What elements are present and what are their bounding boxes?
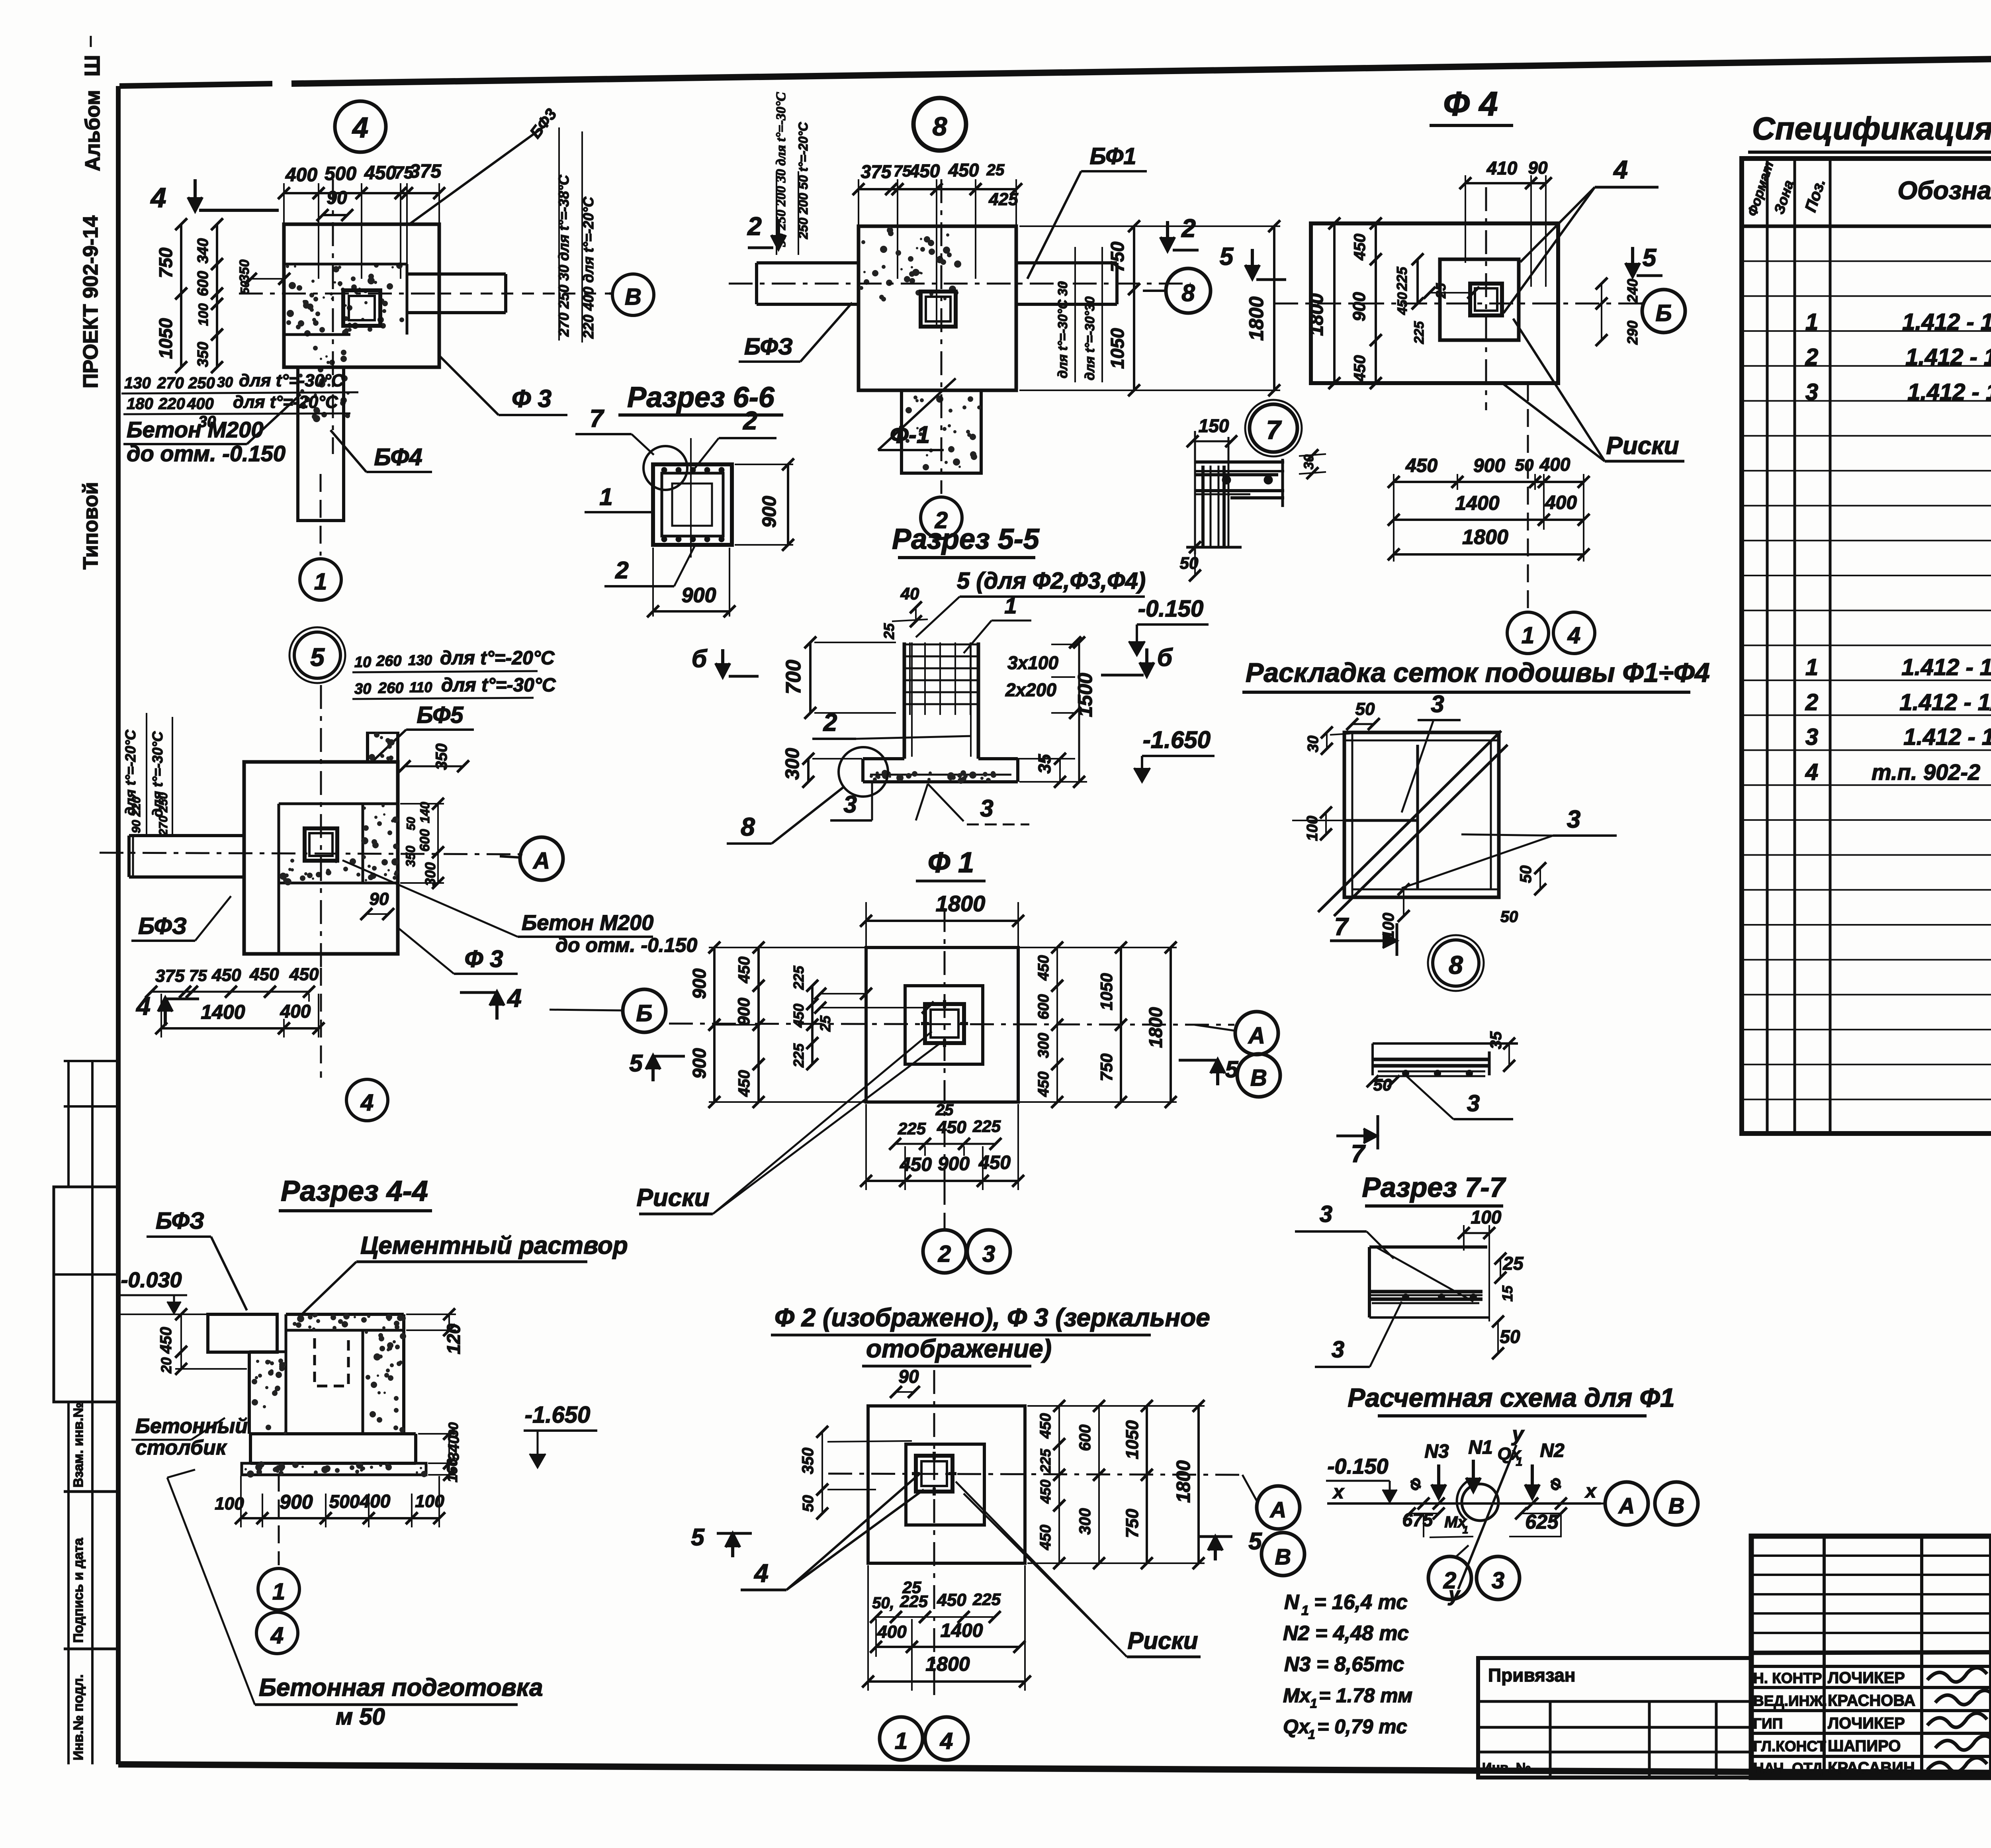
svg-text:30: 30 [217,374,233,390]
razrez 5-5 section b markers [692,644,1173,677]
svg-text:350: 350 [799,1448,817,1474]
svg-text:750: 750 [1107,241,1128,272]
svg-text:х: х [1332,1482,1345,1503]
sidebar album label [80,36,104,171]
svg-text:450: 450 [948,160,979,180]
svg-text:Подпись и дата: Подпись и дата [71,1537,86,1643]
razrez 4-4 section drawing [208,1313,550,1478]
F2 centerlines [828,1370,1242,1697]
svg-text:ЛОЧИКЕР: ЛОЧИКЕР [1828,1715,1905,1732]
svg-text:1800: 1800 [1306,293,1327,336]
node4 beam right [407,274,609,313]
svg-text:4: 4 [1613,155,1628,184]
svg-text:Бетон М200: Бетон М200 [522,911,653,935]
razrez 6-6 callout 2 top [694,406,776,469]
F2 label 4 [741,1474,924,1590]
node8 marker 7 below [1336,1115,1378,1168]
node5 concrete dots [361,804,399,881]
svg-text:Риски: Риски [636,1184,709,1212]
F2 dim 90 [890,1366,920,1398]
svg-text:Ф 1: Ф 1 [928,847,974,879]
svg-text:3: 3 [1431,691,1444,717]
raskladka title [1242,658,1710,692]
raskladka marker 7 [1330,913,1397,956]
svg-text:50: 50 [1515,456,1534,474]
node8 detail plate [1373,1043,1518,1076]
svg-text:300: 300 [1035,1033,1052,1058]
node4 lower temperature dims [121,371,358,431]
svg-text:Расчетная схема для Ф1: Расчетная схема для Ф1 [1348,1383,1674,1412]
svg-text:БФЗ: БФЗ [138,913,187,939]
svg-text:N2 = 4,48 тс: N2 = 4,48 тс [1283,1622,1409,1645]
F4 centerlines [1274,187,1641,611]
svg-text:N3 = 8,65тс: N3 = 8,65тс [1284,1653,1404,1676]
node4 plan concrete dots [286,262,404,337]
razrez 4-4 elevation -1.650 [524,1402,597,1468]
svg-text:N: N [1284,1591,1300,1614]
svg-text:1400: 1400 [201,1001,245,1023]
svg-text:250: 250 [188,374,215,392]
svg-text:1: 1 [1308,1727,1315,1742]
svg-text:3: 3 [1492,1568,1504,1594]
svg-text:5: 5 [629,1050,643,1077]
svg-text:Б: Б [1655,300,1672,326]
svg-text:Qх: Qх [1283,1715,1310,1738]
razrez 4-4 dims right [418,1422,462,1482]
svg-text:х: х [1584,1481,1597,1502]
svg-text:450: 450 [937,1118,966,1137]
svg-text:150: 150 [1199,415,1229,436]
razrez 5-5 dims right [982,636,1096,788]
svg-text:35: 35 [1035,754,1054,773]
node 7 bubble [1245,400,1302,456]
razrez 4-4 bottom dims [215,1476,445,1527]
svg-text:1800: 1800 [936,891,986,916]
title block signature labels [1753,1669,1915,1777]
F1 circles 2 3 [923,1230,1010,1273]
svg-text:Типовой: Типовой [79,482,102,570]
schema force N1 [1466,1437,1493,1492]
F4 section markers 5 [1220,243,1662,280]
svg-text:Бетон М200: Бетон М200 [127,417,264,442]
svg-text:А: А [1248,1023,1265,1049]
schema axis [1327,1423,1601,1605]
F1 left dims [689,942,934,1108]
svg-text:для t°=-30°С: для t°=-30°С [441,675,556,696]
node5 BF3 label [131,896,231,941]
svg-text:225: 225 [1394,266,1410,291]
svg-text:110: 110 [409,679,432,695]
svg-text:450: 450 [1351,355,1369,382]
svg-text:5: 5 [691,1524,705,1550]
svg-text:7: 7 [1351,1140,1366,1168]
svg-text:1: 1 [1516,1455,1523,1468]
svg-text:ШАПИРО: ШАПИРО [1828,1737,1901,1755]
svg-text:БФ1: БФ1 [1089,143,1136,169]
raskladka dims [1292,691,1617,939]
svg-text:450: 450 [1035,955,1052,981]
svg-text:225: 225 [790,965,807,990]
f1plan right temp dims rotated [1055,247,1102,382]
svg-text:750: 750 [1097,1053,1116,1081]
svg-text:75: 75 [894,162,911,180]
node 8 bubble double [1428,935,1484,991]
svg-text:ЛОЧИКЕР: ЛОЧИКЕР [1828,1669,1905,1687]
svg-text:2: 2 [1443,1568,1456,1594]
f1plan left rotated dims [774,92,810,255]
schema dims [1402,1498,1567,1537]
svg-text:В: В [1275,1544,1291,1569]
node4 BF4 label [331,430,432,472]
svg-text:Альбом: Альбом [81,90,104,171]
svg-text:225: 225 [1412,321,1427,345]
svg-text:450: 450 [1037,1525,1054,1550]
svg-text:ГЛ.КОНСТ: ГЛ.КОНСТ [1753,1738,1826,1754]
svg-text:N1: N1 [1468,1437,1492,1458]
svg-text:20: 20 [158,1357,174,1374]
schema grid circles A V [1601,1482,1698,1525]
spec table content F1 section [1805,236,1991,544]
svg-text:375: 375 [409,161,442,182]
razrez 6-6 callout 2 bottom [604,546,695,586]
f1plan column [921,292,956,327]
svg-text:450: 450 [790,1004,807,1028]
svg-text:А: А [1269,1497,1286,1522]
svg-text:Цементный раствор: Цементный раствор [360,1232,628,1259]
svg-text:140: 140 [418,802,432,823]
svg-text:1800: 1800 [1245,296,1267,341]
svg-text:1: 1 [1301,1603,1309,1618]
svg-text:400: 400 [1545,492,1577,513]
svg-text:100: 100 [196,303,211,326]
svg-text:Ф 2 (изображено), Ф 3 (зеркаль: Ф 2 (изображено), Ф 3 (зеркальное [774,1303,1210,1332]
svg-text:1.412 - 1/ 77: 1.412 - 1/ 77 [1902,309,1991,335]
svg-text:100: 100 [415,1492,444,1511]
svg-text:отображение): отображение) [866,1334,1052,1363]
svg-text:1: 1 [314,569,327,595]
svg-text:1.412 - 1/77: 1.412 - 1/77 [1907,379,1991,405]
svg-text:N3: N3 [1424,1441,1449,1462]
node8 bubble scribbled [913,98,966,151]
svg-text:1500: 1500 [1074,673,1096,717]
svg-text:450: 450 [1037,1480,1054,1504]
svg-text:Инв. №: Инв. № [1482,1760,1531,1776]
svg-text:1.412 - 1/77: 1.412 - 1/77 [1899,689,1991,715]
svg-text:400: 400 [360,1491,391,1511]
svg-text:2: 2 [1181,214,1196,243]
svg-text:-1.650: -1.650 [1143,726,1211,753]
node5 section markers 4 [135,984,522,1026]
svg-text:5 (для Ф2,Ф3,Ф4): 5 (для Ф2,Ф3,Ф4) [957,568,1146,594]
svg-text:450: 450 [735,1070,753,1097]
razrez 5-5 note [916,568,1146,653]
spec table title [1748,111,1991,157]
svg-text:для t°=-30°30: для t°=-30°30 [1082,296,1097,380]
svg-text:ВЕД.ИНЖ.: ВЕД.ИНЖ. [1753,1693,1827,1709]
svg-text:для t°=-30°С: для t°=-30°С [239,371,344,390]
f1plan right dims [1019,220,1280,396]
F2 right dims [1027,1400,1205,1569]
raskladka diagonals [1318,731,1508,916]
razrez 7-7 title [1362,1172,1506,1206]
node5 bottom dims [145,965,325,1038]
svg-text:Бетонный: Бетонный [135,1415,248,1438]
razrez 6-6 callout 7 [575,405,654,455]
razrez 5-5 elevation -1.650 [1134,726,1215,782]
svg-text:1: 1 [1805,309,1818,335]
svg-text:50: 50 [1500,908,1518,926]
svg-text:700: 700 [782,660,805,695]
node5 90 label [360,889,394,920]
razrez 6-6 detail circle [643,446,687,490]
F4 circles 1 4 [1507,612,1595,654]
grid circle V [609,274,654,315]
svg-text:450: 450 [1035,1071,1052,1097]
sidebar project label [79,215,102,570]
node4 left dimensions [155,218,290,373]
svg-text:Спецификация: Спецификация [1752,111,1991,146]
svg-text:15: 15 [1499,1285,1516,1302]
svg-text:А: А [532,848,550,874]
schema circles 2 3 [1428,1545,1520,1599]
svg-text:1.412 - 1/77: 1.412 - 1/77 [1901,654,1991,680]
svg-text:3: 3 [1805,724,1818,750]
f1plan centerlines [729,179,1191,494]
node5 marker 5 up [629,1050,685,1081]
svg-text:400: 400 [877,1622,907,1642]
sidebar stamp boxes [54,1061,118,1764]
svg-text:В: В [1250,1065,1267,1091]
svg-text:Бетонная подготовка: Бетонная подготовка [259,1674,543,1701]
svg-text:4: 4 [507,984,522,1012]
svg-text:180: 180 [127,395,153,413]
svg-text:750: 750 [155,247,176,278]
svg-text:600: 600 [1076,1425,1094,1451]
razrez 4-4 circles 1 4 [256,1474,299,1654]
svg-text:3: 3 [843,791,857,818]
node4 right rotated dims [408,106,597,343]
razrez 6-6 square [653,438,732,558]
svg-text:3: 3 [1332,1337,1344,1363]
node4 F3 label [440,356,567,415]
svg-text:Риски: Риски [1606,432,1679,460]
node 7 corner detail [1180,415,1326,581]
node4 column [343,290,380,326]
node5 F3 label [398,928,518,974]
node5 circle A [500,837,563,880]
svg-text:3: 3 [1805,379,1818,405]
razrez 4-4 title [279,1175,432,1211]
svg-text:30: 30 [1301,454,1316,470]
svg-text:Обозначение: Обозначение [1897,176,1991,205]
grid circle B right of F4 [1641,290,1685,333]
svg-text:225: 225 [900,1592,928,1611]
F4 left dims [1306,217,1557,389]
F4 top dims [1459,158,1552,287]
svg-text:900: 900 [734,998,753,1026]
svg-text:4: 4 [150,182,166,213]
svg-text:900: 900 [689,968,710,999]
svg-text:450: 450 [1037,1413,1054,1439]
razrez 5-5 mesh grid [904,642,978,715]
svg-text:В: В [1668,1493,1684,1518]
svg-text:= 1.78 тм: = 1.78 тм [1319,1684,1412,1707]
svg-text:90: 90 [370,889,389,909]
f1plan top dims [853,160,1022,327]
schema force N2 [1525,1440,1565,1498]
svg-text:50,: 50, [872,1594,894,1612]
svg-text:для t°=-20°С: для t°=-20°С [440,648,555,669]
svg-text:400: 400 [285,164,317,186]
svg-text:В: В [625,284,642,310]
svg-text:1050: 1050 [1123,1420,1142,1459]
svg-text:270: 270 [157,374,184,392]
node5 plan outline [129,732,398,954]
svg-text:4: 4 [352,112,368,144]
svg-text:N2: N2 [1540,1440,1565,1461]
svg-text:260: 260 [378,680,403,697]
svg-text:375: 375 [861,161,892,182]
svg-text:450: 450 [249,965,279,984]
F1 plan outline [866,947,1018,1102]
svg-text:4: 4 [753,1559,769,1588]
svg-text:Разрез 7-7: Разрез 7-7 [1362,1172,1506,1203]
f1plan bottom circle 2 [921,497,962,538]
razrez 4-4 BF3 label [147,1208,247,1310]
svg-text:30: 30 [354,681,371,697]
F1 column with riski [921,1000,968,1047]
schema center circle [1457,1478,1498,1521]
svg-text:Ф 4: Ф 4 [1443,85,1498,123]
svg-text:2: 2 [1805,689,1818,715]
node 4 bubble [335,101,386,152]
node4 top dimensions [278,161,445,279]
node5 temp notes [352,648,556,699]
svg-text:Ф 3: Ф 3 [512,385,552,413]
svg-text:225: 225 [790,1043,807,1068]
svg-text:1050: 1050 [1097,973,1116,1010]
svg-text:2: 2 [747,212,762,241]
svg-text:Н. КОНТР: Н. КОНТР [1753,1670,1822,1686]
svg-text:4: 4 [360,1090,374,1116]
svg-text:А: А [1618,1493,1635,1518]
svg-text:БФЗ: БФЗ [156,1208,204,1234]
svg-text:2: 2 [615,557,628,583]
svg-text:50: 50 [405,817,418,830]
svg-text:750: 750 [1123,1509,1142,1538]
svg-text:50: 50 [800,1495,817,1512]
node8 detail dims [1367,1031,1515,1119]
svg-text:900: 900 [759,496,780,528]
svg-text:1.412 - 1/77: 1.412 - 1/77 [1903,724,1991,750]
svg-text:4: 4 [1805,759,1818,785]
schema force Qx1 [1498,1444,1523,1468]
spec table grid [1742,159,1991,1133]
F4 bottom dims [1388,454,1590,562]
node4 centerlines [239,179,439,556]
privyazan box [1478,1658,1751,1778]
node5 centerlines [100,685,526,1078]
F1 marker 5 right [1179,1057,1238,1085]
svg-text:600: 600 [1035,994,1052,1019]
svg-text:ПРОЕКТ 902-9-14: ПРОЕКТ 902-9-14 [79,215,102,388]
svg-text:375: 375 [155,966,185,986]
razrez 5-5 dims left [782,636,896,788]
F2 left dims [799,1426,912,1519]
svg-text:225: 225 [898,1119,926,1138]
svg-text:900: 900 [1473,455,1505,476]
svg-text:1: 1 [599,484,612,510]
F1 right dims [1019,942,1177,1108]
svg-text:900: 900 [280,1491,313,1513]
svg-text:1400: 1400 [1455,492,1499,514]
node5 column [305,828,337,861]
svg-text:т.п. 902-2: т.п. 902-2 [1872,760,1980,785]
f1plan section markers 2 [747,212,1199,251]
schema phi symbols [1406,1476,1567,1494]
svg-text:8: 8 [741,812,755,841]
svg-text:35: 35 [1487,1031,1505,1049]
svg-text:1800: 1800 [1173,1460,1194,1503]
svg-text:900: 900 [682,584,716,607]
svg-text:25: 25 [935,1101,954,1119]
svg-text:Взам. инв.№: Взам. инв.№ [71,1402,86,1488]
svg-text:БФ5: БФ5 [417,702,464,728]
razrez 5-5 elevation -0.150 [1129,596,1209,655]
node4 section marker 4 left [150,179,279,213]
svg-text:300: 300 [1076,1508,1094,1535]
grid circle 8 right [1143,268,1211,313]
razrez 6-6 callout 1 [585,484,655,512]
svg-text:б: б [1157,644,1173,671]
svg-text:Разрез 4-4: Разрез 4-4 [281,1175,428,1207]
svg-text:Раскладка сеток подошвы Ф1÷Ф4: Раскладка сеток подошвы Ф1÷Ф4 [1246,658,1710,688]
svg-text:290: 290 [1624,321,1641,345]
razrez 4-4 dims left [119,1308,247,1375]
svg-text:340: 340 [195,238,211,263]
svg-text:3: 3 [1320,1201,1332,1227]
svg-text:5: 5 [1225,1057,1238,1083]
svg-text:3х100: 3х100 [1007,652,1058,673]
F2 riski label [956,1482,1201,1657]
razrez 6-6 title [618,382,783,415]
raskladka square [1344,732,1499,897]
razrez 5-5 column [904,642,978,759]
F4 plan outline [1311,223,1558,383]
F4 title [1430,85,1513,125]
F2 circles 1 4 [880,1717,968,1760]
node5 right dims [399,744,469,889]
node5 circle B right [550,989,666,1032]
f1plan concrete dots [859,227,961,301]
svg-text:м 50: м 50 [336,1704,385,1730]
F2 marker 5 right [1199,1528,1262,1560]
razrez 4-4 dim 120 [406,1308,464,1354]
svg-text:8: 8 [1181,280,1195,306]
svg-text:1: 1 [1004,593,1017,618]
F1 grid circles A V right [1195,1012,1280,1097]
svg-text:1: 1 [1805,654,1818,680]
svg-text:Ф 3: Ф 3 [465,946,503,972]
svg-text:Б: Б [636,1000,652,1026]
svg-text:350: 350 [195,342,211,367]
svg-text:600: 600 [195,271,211,296]
F4 riski label [1501,319,1684,461]
svg-text:б: б [692,645,708,673]
svg-text:50: 50 [1517,865,1535,883]
node5 left temp dims rotated [122,713,172,836]
spec table headers [1745,160,1991,219]
